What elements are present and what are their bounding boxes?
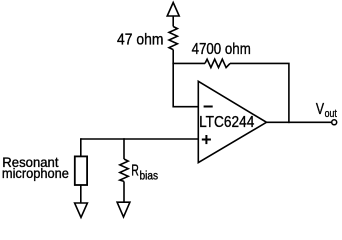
wire mic to ground: [80, 185, 82, 203]
power supply arrow: [167, 3, 179, 17]
wire mic branch top: [80, 138, 82, 156]
svg-text:out: out: [325, 108, 337, 120]
svg-text:47 ohm: 47 ohm: [117, 31, 164, 48]
wire supply to R1: [172, 16, 174, 27]
resistor Rbias: [120, 159, 128, 181]
label LTC6244: [199, 114, 254, 131]
wire inverting input: [173, 106, 198, 108]
resistor R2 4700 ohm: [205, 59, 230, 67]
svg-text:V: V: [316, 101, 324, 118]
ground mic: [75, 203, 88, 217]
wire non-inverting input: [81, 138, 199, 140]
label Rbias: [131, 163, 158, 183]
resistor R1 47 ohm: [169, 27, 177, 50]
ground Rbias: [117, 202, 130, 217]
svg-text:4700 ohm: 4700 ohm: [192, 41, 251, 58]
wire node to feedback resistor: [172, 62, 205, 64]
wire output: [267, 121, 332, 123]
wire Rbias to ground: [123, 181, 125, 202]
wire R2 to output node: [230, 63, 289, 123]
op-amp minus pin mark: [204, 106, 213, 108]
wire Rbias branch top: [123, 138, 125, 159]
label Vout: [316, 101, 337, 120]
svg-text:bias: bias: [140, 170, 159, 182]
op-amp U1: [198, 81, 266, 162]
op-amp plus pin mark: [202, 135, 211, 144]
label 47 ohm: [117, 31, 164, 48]
svg-text:LTC6244: LTC6244: [199, 114, 254, 131]
label Resonant microphone: [2, 155, 69, 181]
wire R1 to inverting input node: [172, 50, 174, 108]
svg-text:R: R: [131, 163, 139, 180]
svg-text:microphone: microphone: [2, 166, 69, 181]
label 4700 ohm: [192, 41, 251, 58]
microphone MIC1: [75, 156, 87, 185]
node Vout terminal: [332, 120, 337, 125]
